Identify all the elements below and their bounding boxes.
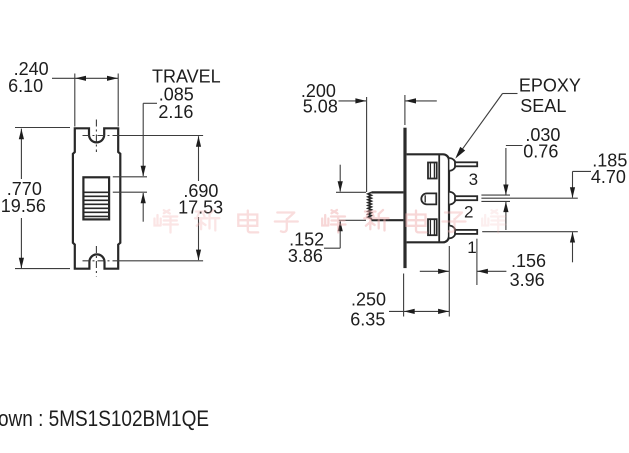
dimension .250/6.35: [389, 246, 449, 317]
centerline top mounting hole: [83, 120, 119, 153]
centerline bottom mounting hole: [83, 246, 119, 277]
EPOXY SEAL label and leader: [459, 94, 518, 154]
switch body outline: [73, 128, 120, 268]
svg-text:EPOXY: EPOXY: [519, 76, 581, 96]
epoxy seal bump pin 2: [449, 192, 455, 205]
dimension .770/19.56: [15, 128, 70, 269]
upper contact: [428, 163, 437, 179]
dimension .690/17.53: [118, 136, 203, 261]
svg-text:SEAL: SEAL: [520, 96, 566, 116]
pin 2: [455, 196, 477, 200]
svg-text:4.70: 4.70: [591, 167, 626, 187]
pin 3: [455, 162, 477, 166]
svg-text:0.76: 0.76: [523, 142, 558, 162]
svg-text:3.86: 3.86: [288, 246, 323, 266]
actuator shaft with knurl: [368, 192, 403, 220]
dimension TRAVEL .085/2.16: [113, 103, 157, 221]
middle common contact (rounded slot): [421, 193, 436, 204]
dimension .185/4.70 (pin pitch): [481, 171, 591, 262]
svg-text:2: 2: [464, 202, 473, 221]
dimension .152/3.86: [324, 165, 366, 249]
svg-text:17.53: 17.53: [178, 198, 223, 218]
svg-text:6.35: 6.35: [350, 310, 385, 330]
svg-text:3: 3: [469, 170, 478, 189]
svg-text:.250: .250: [351, 290, 386, 310]
switch body: [407, 154, 449, 242]
svg-text:3.96: 3.96: [510, 270, 545, 290]
svg-text:own : 5MS1S102BM1QE: own : 5MS1S102BM1QE: [0, 406, 209, 431]
svg-text:TRAVEL: TRAVEL: [152, 67, 221, 87]
dimension .156/3.96: [420, 239, 507, 285]
slider window: [83, 177, 109, 219]
pin 1: [455, 230, 477, 234]
epoxy seal bump pin 3: [449, 158, 455, 171]
dimension .030/0.76 (pin thickness): [481, 146, 522, 231]
svg-text:.156: .156: [511, 251, 546, 271]
svg-text:19.56: 19.56: [1, 196, 46, 216]
svg-text:2.16: 2.16: [158, 102, 193, 122]
dimension .200/5.08: [339, 95, 437, 192]
dimension .240/6.10: [52, 74, 118, 127]
inner cap line: [438, 155, 440, 243]
svg-text:5.08: 5.08: [303, 96, 338, 116]
epoxy seal bump pin 1: [449, 226, 455, 239]
lower contact: [428, 219, 437, 235]
svg-text:6.10: 6.10: [8, 76, 43, 96]
mounting flange: [403, 128, 406, 268]
slider knob hatch: [83, 192, 110, 216]
svg-text:1: 1: [467, 238, 476, 257]
